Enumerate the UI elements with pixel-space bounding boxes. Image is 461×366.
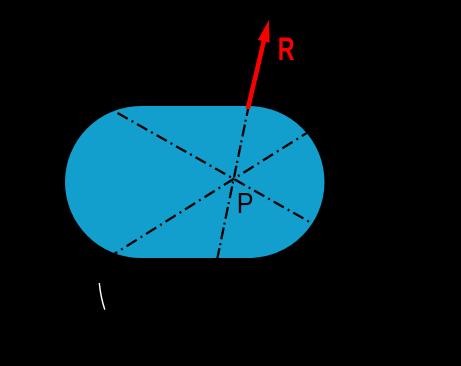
centerline 3 (line of action of R, near vertical): [217, 104, 250, 262]
body (blue stadium plate): [65, 106, 325, 258]
force arrow R head: [258, 20, 270, 43]
svg-text:R: R: [278, 31, 295, 67]
svg-text:P: P: [237, 188, 254, 220]
centerline 2 (lower-left to upper-right): [110, 130, 312, 257]
centerline 1 (upper-left to lower-right): [105, 106, 315, 225]
force arrow R shaft: [248, 38, 265, 109]
stray white tick mark: [99, 283, 105, 310]
